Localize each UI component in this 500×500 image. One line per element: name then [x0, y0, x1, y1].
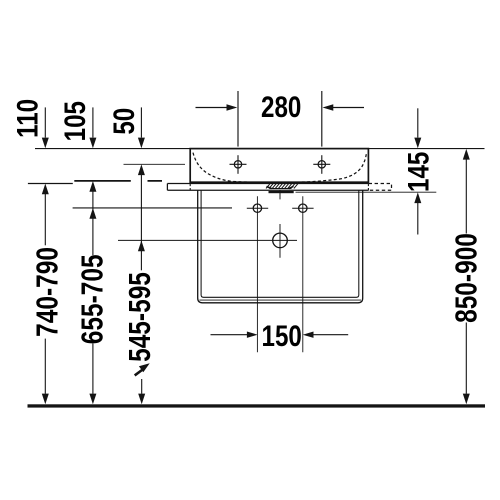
basin bowl dashed curve [193, 153, 366, 183]
label 50 [108, 108, 141, 135]
label 655-705 [75, 254, 109, 344]
drain fitting hatch [265, 183, 299, 188]
dimension 280 line [196, 91, 365, 147]
mounting hole left [247, 204, 268, 212]
svg-text:850-900: 850-900 [449, 233, 483, 323]
faucet level extension line [124, 163, 186, 165]
drain vertical axis [279, 190, 281, 257]
svg-text:280: 280 [261, 91, 301, 124]
label 150 [262, 320, 302, 353]
svg-text:105: 105 [59, 101, 92, 141]
label 740-790 [30, 247, 64, 337]
svg-text:50: 50 [108, 108, 141, 135]
svg-text:740-790: 740-790 [30, 247, 64, 337]
dimension 850-900 vertical [465, 160, 467, 394]
adjustability bent arrow [135, 369, 144, 376]
basin edge stub right dashed [367, 184, 369, 191]
line to 145 dimension [296, 191, 437, 193]
drain circle [273, 233, 288, 248]
svg-text:110: 110 [11, 99, 44, 138]
floor line [28, 404, 486, 407]
svg-text:655-705: 655-705 [75, 254, 109, 344]
mounting hole centerline left [256, 196, 258, 352]
label 280 [261, 91, 301, 124]
dimension 280 arrowheads [227, 104, 334, 110]
basin edge stub left dashed [189, 184, 191, 191]
label 145 [402, 152, 435, 192]
rim extension line right [369, 148, 485, 150]
dimension 50 vertical [140, 107, 142, 393]
faucet hole right (cross + circle) [313, 155, 330, 174]
console top extension line (110 target) [28, 183, 73, 185]
mounting hole centerline right [302, 196, 304, 352]
label 105 [59, 101, 92, 141]
dimension 150 line [211, 334, 349, 336]
console dashed extension right [369, 184, 392, 191]
label 850-900 [449, 233, 483, 323]
console legs frame inner [201, 190, 359, 297]
drain horizontal centerline [118, 239, 297, 241]
drain flange bar [269, 191, 294, 193]
console frame mid line [199, 299, 361, 301]
rim extension line left [35, 148, 190, 150]
mounting hole right [292, 204, 313, 212]
dimension 150 arrowheads [247, 332, 314, 338]
svg-text:545-595: 545-595 [122, 272, 156, 362]
console shelf slab [167, 184, 368, 191]
label 110 [11, 99, 44, 138]
console legs frame outer [198, 190, 363, 302]
dimension 105 vertical [92, 107, 94, 393]
faucet hole left (cross + circle) [230, 155, 247, 174]
mounting hole level line (655 target) [73, 207, 232, 209]
label 545-595 [122, 272, 156, 362]
basin outline [190, 149, 368, 183]
dimension 110 vertical [44, 107, 46, 393]
svg-text:145: 145 [402, 152, 435, 192]
dimension 145 vertical [417, 108, 419, 234]
basin underside extension line (105 target) [74, 180, 162, 182]
svg-text:150: 150 [262, 320, 302, 353]
